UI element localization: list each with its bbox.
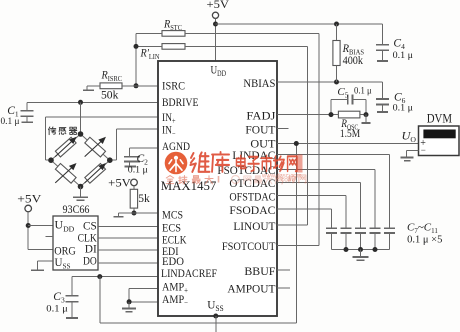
wire FSOTCOUT	[277, 244, 319, 246]
wire cap bank bottom rail	[332, 249, 390, 251]
ground DVM	[407, 149, 419, 151]
svg-text:50k: 50k	[101, 90, 119, 102]
node bridge right	[107, 157, 113, 163]
resistor R_BIAS 400k	[336, 24, 338, 41]
resistor bridge arm bottom-left	[51, 160, 81, 186]
svg-text:FOUT: FOUT	[245, 122, 276, 136]
pin stub FOUT	[277, 128, 289, 130]
svg-text:EDO: EDO	[162, 254, 184, 268]
wire R'_LIN right to LINOUT drop	[185, 45, 308, 47]
watermark text 维库电子市场网	[190, 152, 297, 172]
wire LINOUT	[277, 224, 308, 226]
svg-text:+5V: +5V	[207, 0, 230, 11]
svg-text:OFSTDAC: OFSTDAC	[229, 190, 275, 204]
ground bridge	[80, 187, 82, 197]
svg-text:0.1 μ: 0.1 μ	[128, 166, 148, 176]
wire AMP-	[129, 301, 158, 303]
svg-text:MCS: MCS	[162, 207, 183, 221]
svg-text:AGND: AGND	[162, 139, 190, 153]
svg-text:0.1 μ: 0.1 μ	[393, 51, 413, 61]
wire R_ISRC left termination	[87, 85, 100, 87]
svg-text:BBUF: BBUF	[244, 264, 275, 278]
capacitor C4 0.1u	[382, 24, 384, 44]
svg-text:AMPOUT: AMPOUT	[227, 282, 276, 296]
ground 93C66 U_SS	[38, 260, 53, 262]
wire FSODAC to C7	[277, 208, 332, 210]
ground cap bank	[360, 250, 362, 257]
svg-text:5k: 5k	[138, 193, 150, 205]
wire MCS	[133, 208, 135, 213]
svg-text:0.1 μ: 0.1 μ	[1, 117, 20, 127]
pin stub BBUF	[277, 269, 290, 271]
wire +5V to U_DD/ORG of 93C66	[27, 212, 29, 250]
wire ISRC pin	[122, 85, 158, 87]
svg-text:0.1 μ: 0.1 μ	[46, 304, 68, 314]
resistor 5k	[133, 186, 135, 190]
wire R_STC left	[136, 32, 162, 34]
resistor bridge arm top-left	[51, 134, 81, 160]
capacitor C3 0.1u	[71, 277, 73, 296]
svg-text:FSODAC: FSODAC	[229, 203, 275, 217]
svg-text:−: −	[421, 145, 426, 155]
wire FADJ	[277, 114, 331, 116]
resistor R_OSC 1.5M	[338, 111, 360, 118]
svg-text:DI: DI	[85, 244, 97, 256]
wire +5V vertical to U_DD	[215, 18, 217, 61]
wire U_SS down	[213, 314, 218, 319]
capacitor C2 0.1u	[129, 148, 131, 156]
wire IN-	[117, 128, 159, 130]
label sensor 传感器	[48, 127, 55, 135]
wire ISRC node vertical	[135, 33, 137, 85]
wire BDRIVE	[27, 101, 158, 103]
node bridge left	[48, 157, 54, 163]
wire FSOTCDAC to C10	[277, 169, 375, 171]
svg-text:400k: 400k	[343, 55, 364, 67]
wire LINDACREF wrap to OUT	[99, 277, 101, 323]
wire DO-EDO	[98, 262, 158, 264]
svg-text:0.1 μ: 0.1 μ	[393, 104, 413, 114]
pin stub AMPOUT	[277, 287, 290, 289]
svg-text:LINOUT: LINOUT	[233, 219, 276, 233]
node bridge bottom	[78, 184, 84, 190]
wire CLK-ECLK	[98, 237, 158, 239]
svg-text:ORG: ORG	[54, 246, 76, 258]
svg-text:CS: CS	[83, 221, 97, 233]
resistor bridge arm top-right	[81, 134, 110, 160]
capacitor C5 0.1u	[331, 99, 347, 101]
svg-text:0.1 μ: 0.1 μ	[354, 87, 372, 97]
wire NBIAS	[277, 81, 383, 83]
ground AMP inputs	[128, 302, 130, 308]
svg-text:DO: DO	[83, 255, 97, 267]
wire LINDAC to C11	[277, 154, 390, 156]
resistor bridge arm bottom-right	[81, 160, 110, 186]
svg-text:0.1 μ ×5: 0.1 μ ×5	[407, 234, 442, 245]
wire R_OSC termination	[365, 115, 367, 123]
svg-text:93C66: 93C66	[63, 202, 90, 216]
svg-text:1.5M: 1.5M	[340, 128, 360, 140]
node bridge top	[78, 131, 84, 137]
svg-text:NBIAS: NBIAS	[243, 76, 275, 90]
svg-text:+5V: +5V	[108, 178, 131, 190]
watermark logo circle	[165, 152, 188, 175]
wire AMP+	[129, 287, 158, 289]
wire +5V rail to right	[216, 23, 383, 25]
svg-text:+5V: +5V	[17, 193, 42, 205]
wire bridge top drive	[80, 102, 82, 134]
wire OFSTDAC to C8	[277, 195, 346, 197]
svg-text:DVM: DVM	[427, 111, 452, 125]
capacitor C6 0.1u	[382, 82, 384, 98]
pin stub 93C66 left unused	[46, 236, 53, 238]
wire DI-EDI	[98, 249, 158, 251]
wire R'_LIN left	[136, 45, 162, 47]
wire LINDACREF	[72, 276, 158, 278]
watermark text 全球最大 line	[166, 175, 213, 183]
wire R_STC right to FSOTCOUT drop	[185, 32, 319, 34]
watermark faint IC text	[232, 176, 283, 184]
resistor R'_LIN	[162, 44, 185, 50]
svg-text:FSOTCOUT: FSOTCOUT	[222, 239, 276, 253]
wire IN+	[46, 116, 159, 118]
wire OUT to DVM	[277, 143, 419, 145]
svg-text:LINDACREF: LINDACREF	[161, 268, 217, 280]
capacitor C1 0.1u	[26, 102, 28, 110]
capacitor bank C7~C11	[326, 227, 337, 229]
op-amp U1 MAX1457	[158, 61, 277, 316]
svg-text:BDRIVE: BDRIVE	[162, 95, 199, 109]
svg-text:ISRC: ISRC	[162, 79, 185, 93]
wire OTCDAC to C9	[277, 182, 361, 184]
wire AGND	[130, 147, 158, 149]
wire CS-ECS	[98, 225, 158, 227]
svg-text:FADJ: FADJ	[246, 108, 275, 122]
